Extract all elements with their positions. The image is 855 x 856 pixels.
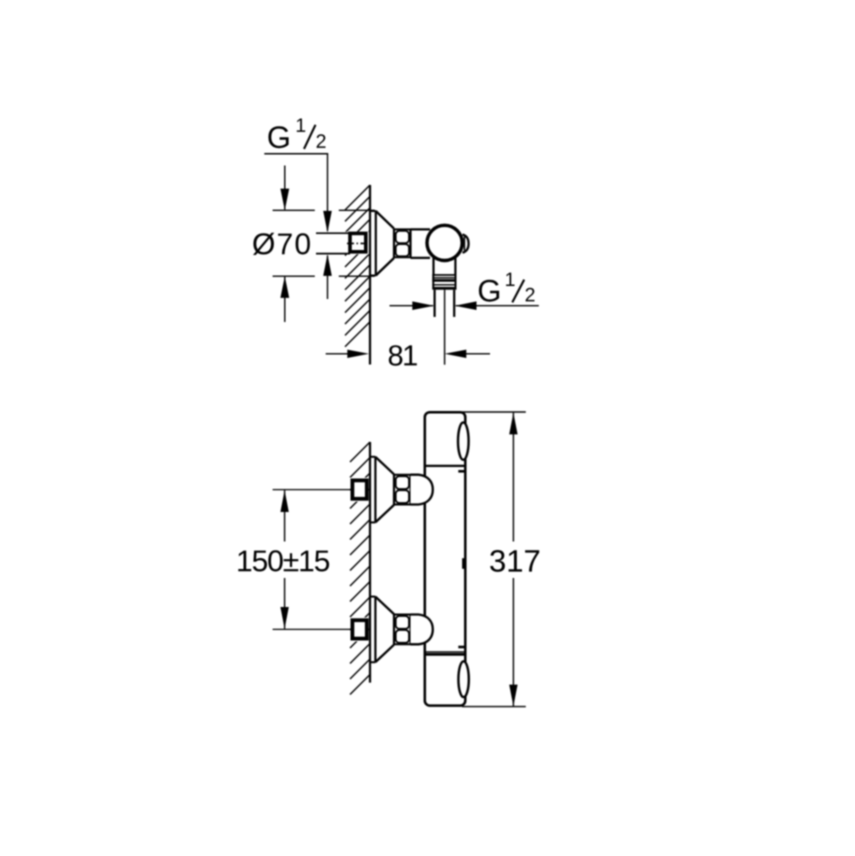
shower hose walls	[434, 290, 436, 317]
white mask behind supply pipe	[315, 232, 369, 255]
G 1/2 dimension at hose (arrows)	[390, 305, 434, 307]
Ø70 dimension arrows	[284, 166, 286, 210]
nut centerline (dash-dot)	[347, 242, 369, 244]
top knob oval	[458, 422, 469, 459]
150±15 dimension	[284, 490, 286, 541]
escutcheon cone	[376, 211, 394, 229]
right cap of valve	[463, 234, 469, 252]
body bottom lines	[425, 651, 466, 653]
upper union bulge into body	[411, 475, 433, 505]
upper union centerline / 150 extension	[273, 489, 350, 491]
lower escutcheon cone	[375, 597, 394, 615]
G 1/2 label (right of hose)	[479, 280, 499, 302]
valve body circle	[427, 225, 462, 260]
G 1/2 leader underline	[264, 153, 328, 155]
317 dimension line and arrows	[512, 413, 514, 542]
valve inlet body	[411, 228, 431, 230]
upper escutcheon flange	[374, 457, 376, 523]
square union nut behind wall (top figure)	[350, 233, 366, 251]
outlet neck below valve	[432, 258, 434, 276]
upper hex nut	[394, 474, 411, 476]
supply pipe behind wall	[316, 232, 350, 234]
G 1/2 label (top left)	[268, 126, 288, 148]
Ø70 extension line top	[273, 209, 315, 211]
317 dimension extension lines	[462, 411, 526, 413]
Ø70 value label	[253, 233, 310, 255]
wall hatching (top figure)	[345, 185, 370, 347]
wall hatching (bottom figure)	[350, 442, 370, 695]
mid right edge tick	[462, 558, 464, 569]
bottom knob oval	[458, 661, 468, 697]
upper escutcheon cone	[375, 457, 394, 475]
body top cap line	[425, 465, 466, 467]
81 dimension	[326, 353, 349, 355]
hose coupling nut bands	[432, 275, 434, 288]
tick below top cap line	[458, 470, 465, 473]
lower union bulge into body	[411, 615, 433, 645]
G 1/2 leader vertical + arrows at pipe	[327, 154, 329, 231]
Ø70 extension line bottom	[273, 275, 315, 277]
lower union centerline / 150 extension	[273, 628, 350, 630]
lower square union nut	[352, 620, 366, 638]
lower hex nut	[394, 614, 411, 616]
white mask behind upper union nut	[346, 478, 370, 502]
wall line (top figure, also 81-dim extension)	[369, 185, 371, 365]
hose centerline	[444, 290, 446, 365]
cap face line	[463, 237, 465, 251]
lower escutcheon flange	[374, 597, 376, 663]
white mask behind lower union nut	[346, 617, 370, 641]
wall line (bottom figure)	[369, 442, 371, 683]
tick above bottom lines	[458, 646, 465, 649]
thermostat body	[425, 412, 466, 705]
escutcheon flange (top figure)	[375, 211, 377, 276]
hex connection nut (top figure)	[394, 228, 411, 230]
upper square union nut	[352, 480, 366, 498]
